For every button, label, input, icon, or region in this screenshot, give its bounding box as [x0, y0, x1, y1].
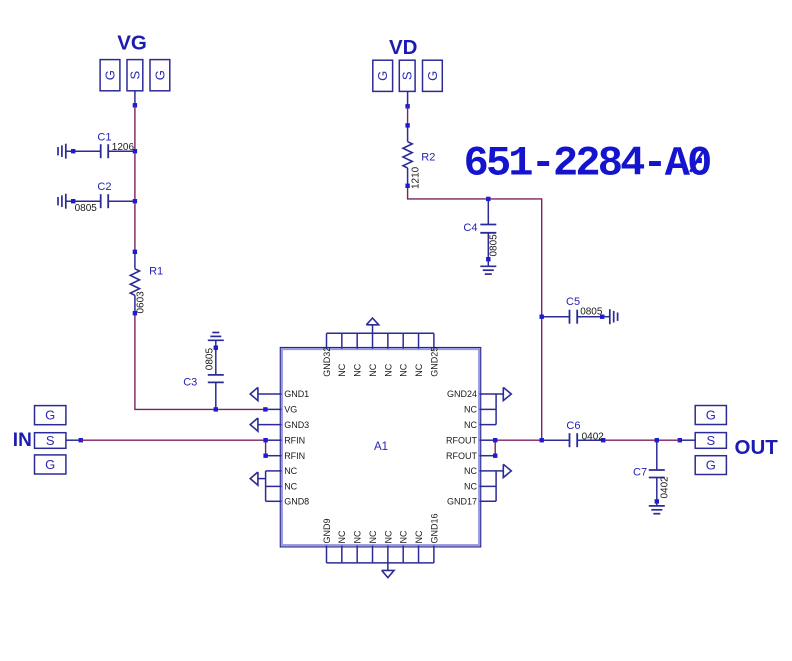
pin GND1 flag — [250, 387, 281, 400]
pin label NC — [284, 466, 297, 476]
value 1206 — [112, 142, 135, 153]
value 0402 — [660, 476, 671, 499]
wire VG net vertical — [134, 105, 136, 252]
svg-text:R1: R1 — [149, 266, 163, 278]
svg-text:NC: NC — [464, 420, 477, 430]
capacitor C2 — [66, 194, 137, 208]
pin label GND8 — [284, 497, 309, 507]
svg-text:NC: NC — [284, 482, 297, 492]
pin VG-S — [134, 91, 136, 106]
svg-text:651-2284-A0: 651-2284-A0 — [464, 140, 711, 188]
pin RFIN1 — [263, 438, 281, 442]
svg-text:0603: 0603 — [136, 291, 147, 314]
svg-text:S: S — [127, 71, 142, 80]
pin label RFIN — [284, 451, 305, 461]
svg-text:S: S — [400, 71, 415, 80]
pin VG — [263, 407, 281, 411]
port VD pad G1 — [373, 60, 393, 91]
svg-text:G: G — [425, 71, 440, 81]
port OUT pad G1 — [695, 406, 726, 425]
svg-text:GND25: GND25 — [429, 347, 439, 377]
svg-text:NC: NC — [284, 466, 297, 476]
port VD pad G2 — [423, 60, 443, 91]
port label VG — [117, 32, 147, 55]
svg-text:G: G — [102, 70, 117, 80]
label R1 — [149, 266, 163, 278]
capacitor C5 — [540, 310, 610, 324]
svg-text:RFOUT: RFOUT — [446, 435, 477, 445]
op-amp U? IC A1 body — [280, 348, 480, 547]
svg-text:G: G — [706, 407, 716, 422]
svg-text:S: S — [706, 433, 715, 448]
value 0603 — [136, 291, 147, 314]
svg-text:GND8: GND8 — [284, 497, 309, 507]
pin label GND32 — [322, 347, 332, 377]
capacitor C4 — [480, 197, 496, 267]
wire VG net lower — [135, 313, 266, 409]
svg-text:G: G — [45, 457, 55, 472]
port OUT pad G2 — [695, 456, 726, 475]
pin OUT-S — [680, 439, 695, 441]
svg-text:C5: C5 — [566, 296, 580, 308]
pin label NC bottom — [383, 530, 393, 543]
resistor R1 — [130, 250, 139, 316]
junction — [133, 103, 137, 107]
svg-text:NC: NC — [353, 530, 363, 543]
resistor R2 — [403, 123, 412, 188]
capacitor C1 — [66, 144, 137, 158]
svg-text:0805: 0805 — [75, 203, 98, 214]
pin label RFIN — [284, 435, 305, 445]
svg-text:NC: NC — [383, 530, 393, 543]
pin label NC bottom — [414, 530, 424, 543]
svg-text:G: G — [152, 70, 167, 80]
capacitor C6 — [540, 433, 606, 447]
pin label NC bottom — [337, 530, 347, 543]
capacitor C3 — [208, 340, 224, 411]
pins GND24 NC23 NC22 bracket — [480, 387, 512, 424]
svg-text:0402: 0402 — [582, 431, 605, 442]
pin label NC — [464, 466, 477, 476]
label C6 — [566, 420, 580, 432]
svg-text:GND24: GND24 — [447, 389, 477, 399]
svg-text:NC: NC — [383, 363, 393, 376]
value 0402 — [582, 431, 605, 442]
pin label GND1 — [284, 389, 309, 399]
svg-text:GND16: GND16 — [429, 513, 439, 543]
label C1 — [97, 131, 111, 143]
pin label GND3 — [284, 420, 309, 430]
pin label RFOUT — [446, 451, 477, 461]
svg-text:NC: NC — [337, 363, 347, 376]
pin label NC — [464, 420, 477, 430]
svg-text:0805: 0805 — [204, 348, 215, 371]
pin label NC top — [383, 363, 393, 376]
svg-text:VG: VG — [284, 405, 297, 415]
wire C6 to OUT — [603, 439, 680, 441]
svg-text:A1: A1 — [374, 441, 388, 453]
svg-text:NC: NC — [464, 405, 477, 415]
pin label GND17 — [447, 497, 477, 507]
port VG pad S — [127, 60, 143, 91]
svg-text:S: S — [46, 433, 55, 448]
svg-text:NC: NC — [464, 482, 477, 492]
ground — [208, 333, 224, 341]
pin label NC bottom — [399, 530, 409, 543]
svg-text:NC: NC — [414, 363, 424, 376]
svg-text:IN: IN — [13, 430, 32, 451]
port VG pad G2 — [150, 60, 170, 91]
pin label RFOUT — [446, 435, 477, 445]
pins NC6 NC7 GND8 bracket — [250, 471, 281, 501]
label C3 — [183, 376, 197, 388]
svg-text:1210: 1210 — [410, 166, 421, 189]
svg-text:C7: C7 — [633, 466, 647, 478]
port OUT pad S — [695, 433, 726, 449]
svg-text:C2: C2 — [97, 181, 111, 193]
svg-text:0805: 0805 — [489, 234, 500, 257]
pin label GND16 — [429, 513, 439, 543]
svg-text:GND3: GND3 — [284, 420, 309, 430]
value 1210 — [410, 166, 421, 189]
svg-text:0805: 0805 — [580, 307, 603, 318]
port VD pad S — [399, 60, 415, 91]
pin label NC top — [399, 363, 409, 376]
wire RFOUT to junction — [495, 439, 542, 441]
value 0805 — [580, 307, 603, 318]
pin label GND25 — [429, 347, 439, 377]
ground — [58, 194, 66, 209]
pin label NC top — [353, 363, 363, 376]
label C4 — [463, 222, 477, 234]
pin label NC bottom — [368, 530, 378, 543]
svg-text:NC: NC — [399, 530, 409, 543]
port label OUT — [735, 436, 779, 459]
label A1 — [374, 441, 388, 453]
label C5 — [566, 296, 580, 308]
pins top bus GND32..GND25 — [327, 318, 434, 349]
svg-text:NC: NC — [464, 466, 477, 476]
svg-text:NC: NC — [337, 530, 347, 543]
pin RFOUT1 — [480, 438, 498, 442]
wire IN to RFIN — [81, 439, 266, 441]
svg-text:GND1: GND1 — [284, 389, 309, 399]
svg-text:0402: 0402 — [660, 476, 671, 499]
ground — [649, 506, 665, 514]
ground — [58, 144, 66, 159]
svg-text:VD: VD — [389, 36, 417, 59]
capacitor C7 — [649, 438, 665, 506]
value 0805 — [204, 348, 215, 371]
pin label NC top — [337, 363, 347, 376]
svg-text:C4: C4 — [463, 222, 477, 234]
svg-text:G: G — [45, 408, 55, 423]
svg-text:RFIN: RFIN — [284, 435, 305, 445]
svg-text:NC: NC — [399, 363, 409, 376]
svg-text:OUT: OUT — [735, 436, 779, 459]
label R2 — [421, 152, 435, 164]
svg-text:RFIN: RFIN — [284, 451, 305, 461]
junction — [405, 104, 409, 108]
svg-text:R2: R2 — [421, 152, 435, 164]
label C2 — [97, 181, 111, 193]
port IN pad G1 — [35, 406, 66, 425]
pin IN-S — [66, 439, 81, 441]
pins NC19 NC18 GND17 bracket — [480, 464, 512, 501]
svg-text:NC: NC — [414, 530, 424, 543]
port label VD — [389, 36, 417, 59]
pin label NC — [464, 405, 477, 415]
label C7 — [633, 466, 647, 478]
port IN pad G2 — [35, 455, 66, 474]
svg-text:C6: C6 — [566, 420, 580, 432]
value 0805 — [489, 234, 500, 257]
pin GND3 flag — [250, 418, 281, 431]
svg-text:1206: 1206 — [112, 142, 135, 153]
ground — [480, 266, 496, 274]
pin label NC — [284, 482, 297, 492]
pin label NC bottom — [353, 530, 363, 543]
svg-text:C3: C3 — [183, 376, 197, 388]
port VG pad G1 — [100, 60, 120, 91]
svg-text:C1: C1 — [97, 131, 111, 143]
pin label NC top — [368, 363, 378, 376]
wire C7 stub — [656, 439, 658, 442]
wire RFOUT1-RFOUT2 — [494, 440, 496, 456]
pin label VG — [284, 405, 297, 415]
svg-text:RFOUT: RFOUT — [446, 451, 477, 461]
wire RFIN1-RFIN2 — [265, 440, 267, 456]
svg-text:G: G — [375, 71, 390, 81]
svg-text:NC: NC — [368, 363, 378, 376]
value 0805 — [75, 203, 98, 214]
svg-text:NC: NC — [368, 530, 378, 543]
title 651-2284-A0 — [464, 140, 711, 188]
pin RFIN2 — [263, 454, 281, 458]
wire VD net upper — [407, 106, 409, 125]
pin VD-S — [407, 91, 409, 106]
junction — [79, 438, 83, 442]
pin RFOUT2 — [480, 454, 498, 458]
pin label GND24 — [447, 389, 477, 399]
port label IN — [13, 430, 32, 451]
pin label NC top — [414, 363, 424, 376]
svg-text:VG: VG — [117, 32, 147, 55]
svg-text:GND32: GND32 — [322, 347, 332, 377]
wire VD net — [408, 186, 542, 440]
svg-text:GND9: GND9 — [322, 518, 332, 543]
pin label GND9 — [322, 518, 332, 543]
pins bottom bus GND9..GND16 — [327, 546, 434, 578]
svg-text:NC: NC — [353, 363, 363, 376]
junction — [678, 438, 682, 442]
port IN pad S — [35, 433, 66, 449]
pin label NC — [464, 482, 477, 492]
ground — [610, 309, 618, 324]
svg-text:GND17: GND17 — [447, 497, 477, 507]
svg-text:G: G — [706, 458, 716, 473]
